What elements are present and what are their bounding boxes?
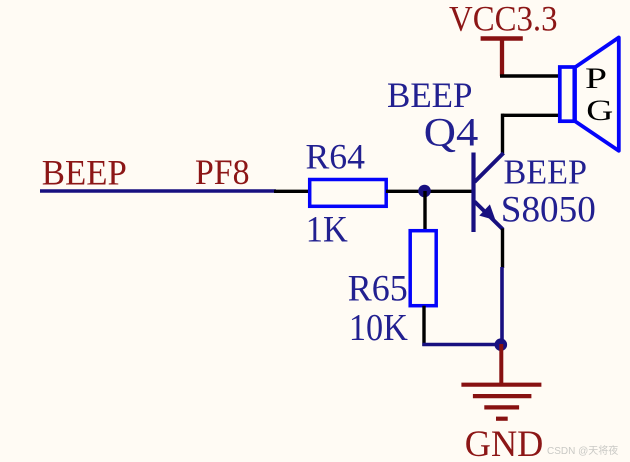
svg-text:BEEP: BEEP [504, 152, 588, 191]
svg-text:1K: 1K [306, 208, 348, 249]
svg-text:PF8: PF8 [195, 152, 250, 192]
svg-text:R65: R65 [348, 268, 408, 309]
svg-text:CSDN @天将夜: CSDN @天将夜 [547, 444, 618, 457]
svg-text:GND: GND [465, 424, 544, 462]
svg-text:P: P [585, 62, 607, 95]
svg-text:R64: R64 [306, 136, 366, 176]
svg-text:G: G [586, 94, 613, 127]
svg-text:S8050: S8050 [501, 190, 596, 231]
svg-text:VCC3.3: VCC3.3 [449, 0, 558, 39]
svg-text:BEEP: BEEP [42, 152, 127, 192]
svg-text:Q4: Q4 [424, 109, 479, 154]
svg-text:10K: 10K [349, 307, 408, 349]
